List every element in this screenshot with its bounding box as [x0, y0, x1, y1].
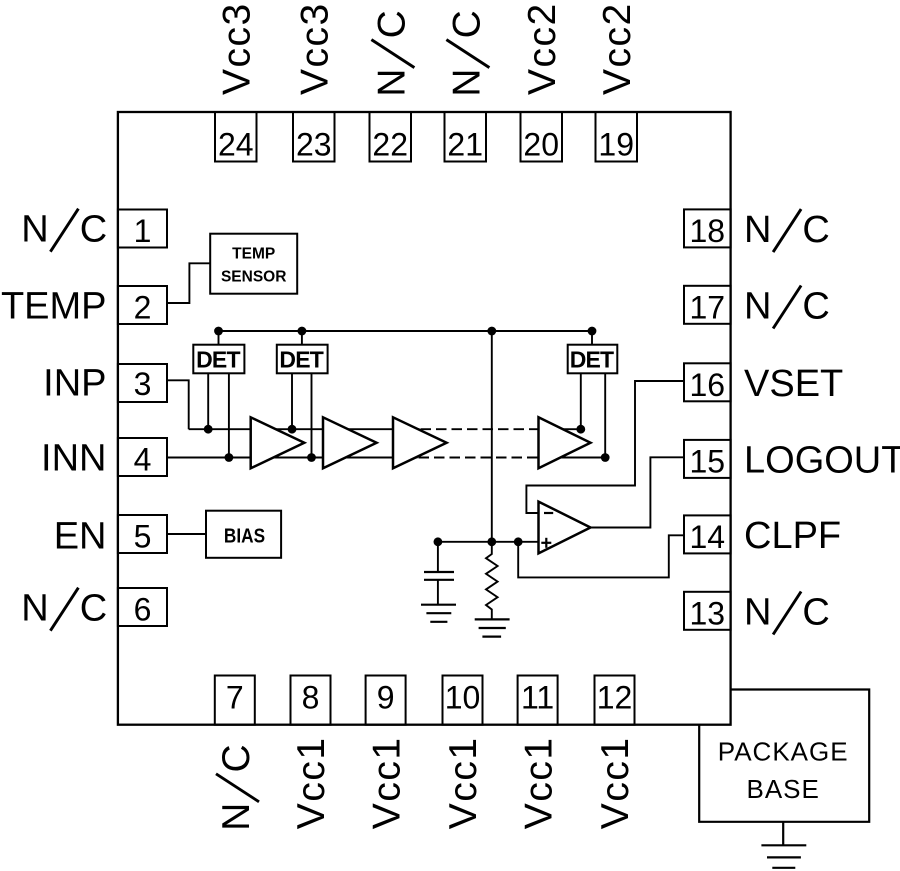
ground for resistor: [475, 619, 510, 636]
svg-text:CLPF: CLPF: [744, 515, 841, 557]
svg-text:Vcc1: Vcc1: [365, 736, 408, 829]
package base label: [718, 737, 849, 805]
pin 2 box: [118, 286, 167, 324]
wire op-amp output to pin15 LOGOUT: [591, 457, 685, 527]
svg-text:N: N: [744, 286, 771, 328]
amplifier A4: [539, 417, 591, 468]
svg-text:DET: DET: [570, 347, 614, 373]
svg-text:DET: DET: [279, 347, 323, 373]
detector DET3 box: [568, 345, 618, 374]
detector DET2 box: [277, 345, 328, 374]
svg-text:VSET: VSET: [744, 363, 843, 405]
pin 14 box: [684, 515, 731, 553]
pin 22 box: [370, 112, 412, 162]
node junction DET1-INN rail: [225, 453, 234, 462]
net label N/C pin17: [744, 286, 830, 329]
wire detector summing bus: [219, 330, 593, 332]
pin 12 box: [595, 676, 635, 725]
svg-text:16: 16: [690, 367, 726, 403]
wire DET3 left leg: [580, 373, 582, 429]
svg-text:18: 18: [690, 213, 726, 249]
node junction bus-vertical: [487, 327, 496, 336]
svg-text:22: 22: [372, 127, 408, 163]
op-amp U1: [539, 502, 591, 554]
svg-text:20: 20: [523, 127, 559, 163]
temp sensor block: [210, 234, 297, 294]
svg-text:1: 1: [134, 213, 152, 249]
svg-text:N: N: [21, 209, 48, 251]
svg-text:11: 11: [521, 680, 554, 716]
svg-text:SENSOR: SENSOR: [221, 268, 286, 285]
net label N/C pin22: [370, 10, 414, 97]
svg-text:C: C: [80, 588, 107, 630]
svg-text:C: C: [445, 10, 488, 38]
svg-text:9: 9: [377, 680, 395, 716]
node junction DET2-INN rail: [307, 453, 316, 462]
wire DET1 right leg: [228, 373, 230, 457]
capacitor C1 lead top: [437, 542, 439, 572]
svg-text:Vcc2: Vcc2: [521, 2, 564, 95]
pin 10 box: [443, 676, 483, 725]
node junction DET1-INP rail: [204, 425, 213, 434]
node junction bus-DET2: [298, 327, 307, 336]
pin 9 box: [366, 676, 406, 725]
pin 15 box: [684, 440, 731, 478]
wire DET2 left leg: [291, 373, 293, 429]
op-amp U1 minus sign: [544, 512, 553, 514]
svg-text:10: 10: [445, 680, 481, 716]
svg-text:C: C: [802, 286, 829, 328]
svg-text:TEMP: TEMP: [1, 285, 107, 327]
svg-text:N: N: [21, 588, 48, 630]
wire INP upper rail: [189, 428, 420, 430]
svg-text:TEMP: TEMP: [232, 246, 275, 263]
node A junction capacitor: [434, 537, 443, 546]
amplifier A2: [323, 417, 377, 468]
svg-text:14: 14: [690, 519, 726, 555]
capacitor C1 lead bottom: [437, 580, 439, 605]
svg-text:24: 24: [218, 127, 254, 163]
net label N/C pin13: [744, 592, 830, 635]
svg-text:N: N: [370, 69, 413, 97]
pin 19 box: [596, 112, 638, 162]
pin 3 box: [118, 364, 167, 402]
pin 1 box: [118, 210, 167, 248]
bias block: [206, 511, 281, 558]
pin 24 box: [215, 112, 257, 162]
svg-text:23: 23: [296, 127, 332, 163]
wire DET2 top leg: [301, 331, 303, 345]
svg-text:Vcc1: Vcc1: [594, 736, 637, 829]
wire pin5 to bias: [167, 533, 206, 535]
svg-text:BIAS: BIAS: [224, 525, 265, 548]
node junction DET2-INP rail: [288, 425, 297, 434]
wire node A horizontal: [438, 541, 539, 543]
pin 17 box: [684, 286, 731, 324]
svg-text:C: C: [802, 592, 829, 634]
svg-text:N: N: [215, 803, 258, 831]
svg-text:13: 13: [690, 595, 726, 631]
pin 7 box: [215, 676, 255, 725]
wire upper rail at last stage: [539, 428, 581, 430]
amplifier A1: [251, 417, 305, 468]
pin 8 box: [291, 676, 331, 725]
net label N/C pin21: [445, 10, 489, 97]
svg-text:6: 6: [134, 592, 152, 628]
svg-text:C: C: [802, 209, 829, 251]
svg-text:C: C: [370, 10, 413, 38]
wire DET3 right leg: [604, 373, 606, 457]
pin 16 box: [684, 363, 731, 401]
svg-text:N: N: [744, 209, 771, 251]
pin 18 box: [684, 209, 731, 247]
amplifier A3: [393, 417, 447, 468]
svg-text:17: 17: [690, 289, 726, 325]
svg-text:Vcc2: Vcc2: [596, 2, 639, 95]
wire upper rail dashed (omitted stages): [421, 428, 539, 430]
resistor R1: [486, 542, 498, 620]
svg-text:INP: INP: [43, 363, 106, 405]
svg-text:N: N: [744, 592, 771, 634]
pin 5 box: [118, 515, 167, 553]
svg-text:8: 8: [302, 680, 320, 716]
svg-text:15: 15: [690, 443, 726, 479]
svg-text:PACKAGE: PACKAGE: [718, 737, 849, 767]
wire lower rail dashed (omitted stages): [419, 457, 539, 459]
svg-text:7: 7: [226, 680, 244, 716]
wire pin2 to temp sensor: [167, 263, 210, 303]
svg-text:21: 21: [447, 127, 483, 163]
pin 23 box: [293, 112, 335, 162]
detector DET1 box: [193, 345, 244, 374]
node junction bus-DET3: [588, 327, 597, 336]
svg-text:5: 5: [134, 519, 152, 555]
node A junction CLPF: [514, 537, 523, 546]
svg-text:INN: INN: [41, 438, 106, 480]
svg-text:C: C: [215, 744, 258, 772]
wire DET1 top leg: [218, 331, 220, 345]
svg-text:DET: DET: [196, 347, 240, 373]
svg-text:BASE: BASE: [747, 774, 820, 804]
wire pin14 CLPF to node A: [518, 535, 684, 577]
wire lower rail at last stage: [539, 457, 606, 459]
wire pin16 VSET to op-amp inverting input: [526, 381, 684, 513]
svg-text:4: 4: [134, 442, 152, 478]
wire DET3 top leg: [591, 331, 593, 345]
net label N/C pin18: [744, 209, 830, 252]
svg-text:Vcc3: Vcc3: [216, 2, 259, 95]
ground for package base: [761, 822, 806, 868]
node junction DET3-lower rail: [601, 453, 610, 462]
chip body: [118, 112, 731, 725]
pin 4 box: [118, 438, 167, 476]
capacitor C1 plates: [424, 571, 454, 573]
wire bus to node A vertical: [491, 331, 493, 542]
svg-text:Vcc1: Vcc1: [442, 736, 485, 829]
pin 13 box: [684, 592, 731, 630]
node A junction resistor: [487, 537, 496, 546]
wire DET1 left leg: [207, 373, 209, 429]
op-amp U1 plus sign: [541, 542, 551, 544]
svg-text:19: 19: [598, 127, 634, 163]
svg-text:C: C: [80, 209, 107, 251]
svg-text:Vcc1: Vcc1: [290, 736, 333, 829]
svg-text:3: 3: [134, 366, 152, 402]
svg-text:2: 2: [134, 290, 152, 326]
net label N/C pin6: [21, 588, 107, 631]
svg-text:12: 12: [597, 680, 633, 716]
net label N/C pin7: [215, 744, 259, 831]
pin 21 box: [445, 112, 487, 162]
svg-text:EN: EN: [54, 515, 107, 557]
pin 6 box: [118, 588, 167, 626]
svg-text:LOGOUT: LOGOUT: [744, 440, 900, 482]
wire DET2 right leg: [311, 373, 313, 457]
ground for capacitor: [421, 605, 456, 622]
svg-text:Vcc1: Vcc1: [517, 736, 560, 829]
node junction DET3-upper rail: [576, 425, 585, 434]
pin 20 box: [521, 112, 563, 162]
wire pin3 to INP rail: [167, 380, 189, 429]
pin 11 box: [518, 676, 558, 725]
net label N/C pin1: [21, 209, 107, 252]
package base paddle: [699, 690, 869, 822]
svg-text:N: N: [445, 69, 488, 97]
svg-text:Vcc3: Vcc3: [294, 2, 337, 95]
wire INN lower rail from pin4: [167, 457, 418, 459]
node junction bus-DET1: [214, 327, 223, 336]
